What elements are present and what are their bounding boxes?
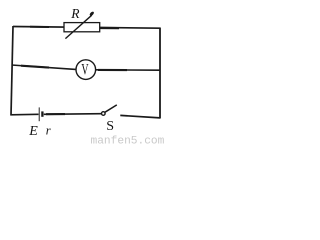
svg-text:R: R: [70, 6, 80, 21]
svg-text:S: S: [106, 119, 114, 134]
svg-text:E: E: [28, 124, 38, 139]
svg-text:manfen5.com: manfen5.com: [91, 136, 165, 146]
svg-text:V: V: [81, 60, 88, 78]
svg-text:r: r: [46, 124, 51, 138]
